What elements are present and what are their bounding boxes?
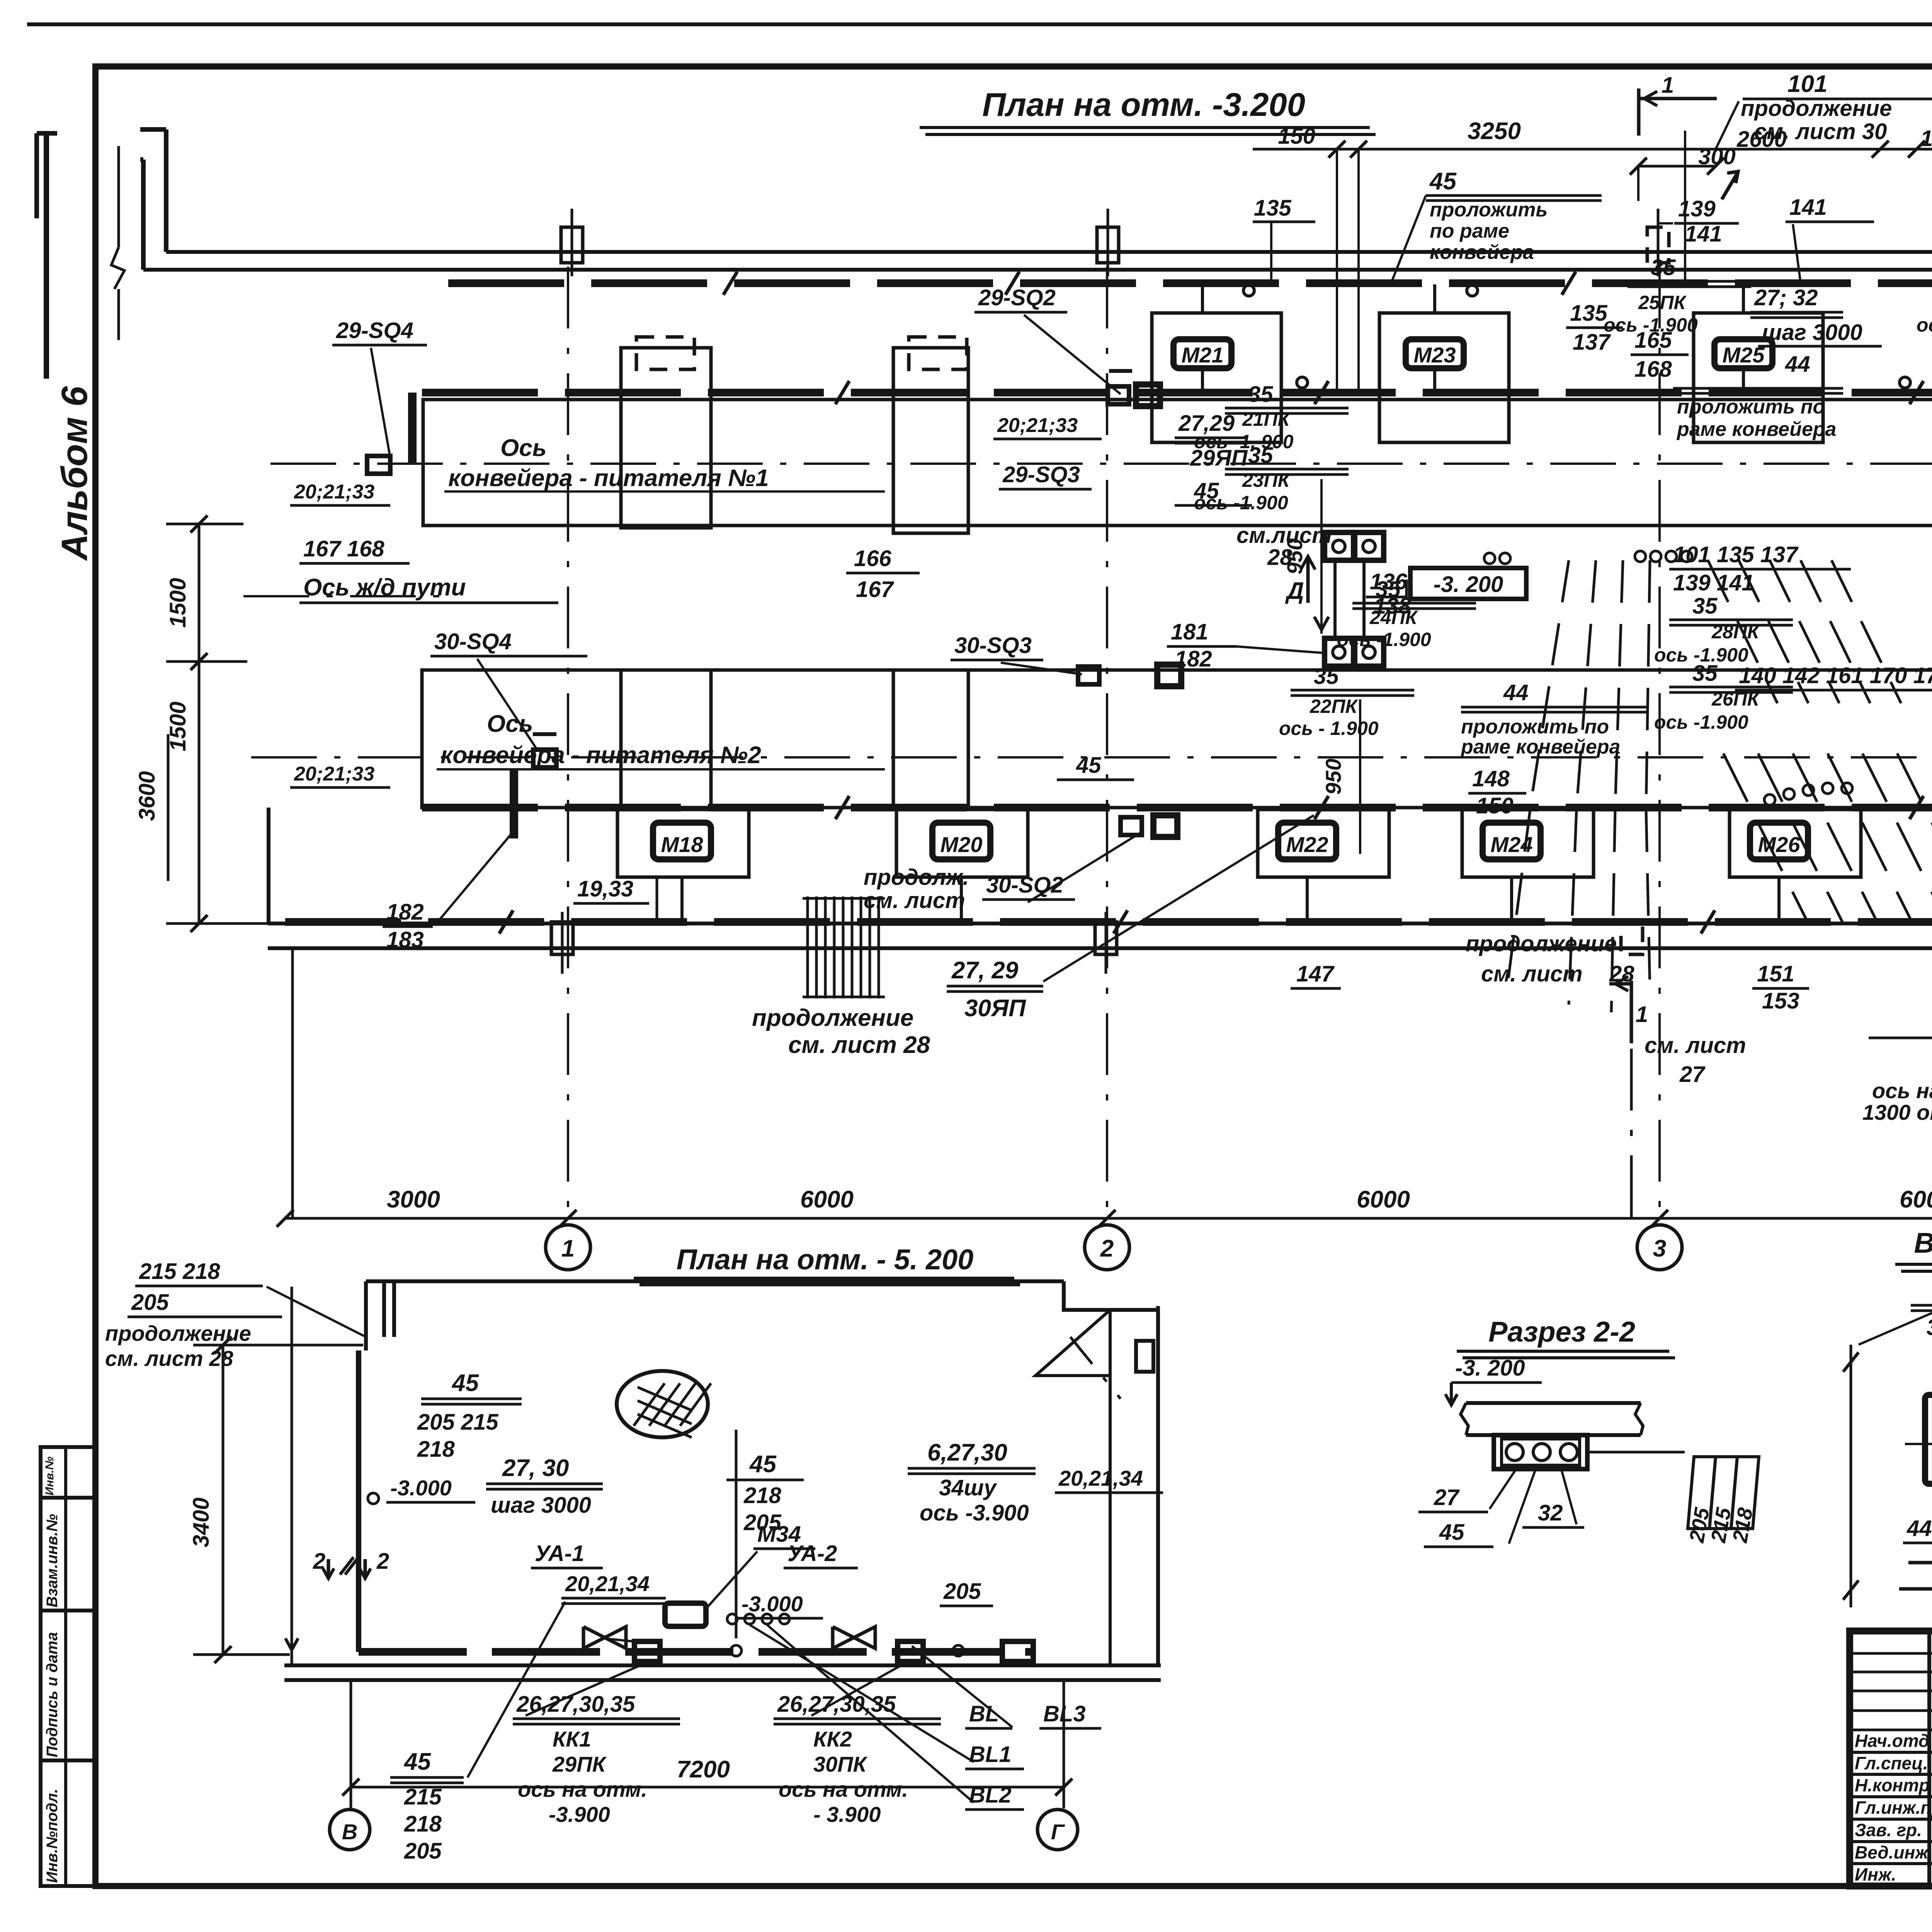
conveyor 1 axis [270, 463, 1932, 465]
motor housing М25 [1694, 313, 1823, 442]
valves [583, 1627, 626, 1648]
motor М25 [1714, 339, 1772, 368]
svg-text:29-SQ4: 29-SQ4 [336, 318, 413, 343]
svg-text:101: 101 [1787, 71, 1827, 97]
svg-text:-3.000: -3.000 [742, 1592, 803, 1616]
svg-text:27, 29: 27, 29 [951, 957, 1019, 984]
floor lines [1908, 1561, 1932, 1565]
section mark 1 top [1637, 88, 1641, 136]
svg-text:Инв.№подл.: Инв.№подл. [44, 1789, 61, 1883]
junction boxes pair [1325, 532, 1354, 560]
svg-text:3: 3 [1653, 1235, 1666, 1262]
svg-text:27: 27 [1434, 1485, 1460, 1510]
svg-text:шаг 3000: шаг 3000 [491, 1493, 591, 1518]
motor М23 [1406, 339, 1464, 368]
svg-text:продолжение: продолжение [105, 1321, 251, 1345]
svg-text:Альбом 6: Альбом 6 [54, 386, 95, 561]
svg-text:см. лист: см. лист [864, 888, 965, 913]
svg-text:150: 150 [1278, 124, 1315, 149]
svg-text:27; 32: 27; 32 [1754, 285, 1818, 310]
svg-text:Вид Б: Вид Б [1914, 1227, 1932, 1259]
slab [1466, 1401, 1641, 1405]
svg-text:-3. 200: -3. 200 [1455, 1355, 1525, 1381]
svg-text:6000: 6000 [800, 1186, 854, 1213]
svg-text:6,27,30: 6,27,30 [927, 1439, 1007, 1466]
svg-text:ось на отм.: ось на отм. [1872, 1078, 1932, 1103]
svg-text:183: 183 [386, 927, 424, 952]
svg-text:ось -1.900: ось -1.900 [1654, 711, 1748, 733]
small circles near M34 [727, 1614, 737, 1624]
svg-text:166: 166 [854, 546, 892, 571]
svg-text:- 3.900: - 3.900 [813, 1802, 881, 1827]
motor housing М22 [1258, 810, 1389, 877]
svg-text:продолж.: продолж. [864, 865, 969, 890]
svg-text:27, 30: 27, 30 [502, 1455, 569, 1481]
svg-text:153: 153 [1762, 988, 1799, 1014]
svg-text:3600: 3600 [134, 771, 160, 821]
svg-text:УА-1: УА-1 [535, 1541, 584, 1566]
svg-text:167 168: 167 168 [303, 536, 384, 561]
svg-text:КК1: КК1 [553, 1727, 591, 1751]
svg-text:ось -1.900: ось -1.900 [1604, 314, 1698, 336]
svg-text:Ось: Ось [500, 435, 547, 461]
svg-text:План на отм. -3.200: План на отм. -3.200 [982, 87, 1305, 123]
svg-text:Взам.инв.№: Взам.инв.№ [44, 1514, 61, 1607]
svg-text:168: 168 [1634, 357, 1672, 382]
svg-text:План на отм. - 5. 200: План на отм. - 5. 200 [677, 1243, 974, 1276]
motor housing М23 [1379, 313, 1509, 442]
svg-text:205 215: 205 215 [417, 1410, 498, 1435]
svg-text:30-SQ4: 30-SQ4 [434, 629, 512, 654]
svg-text:135: 135 [1254, 196, 1292, 221]
column mark south dashed [1621, 922, 1643, 954]
svg-text:20,21,34: 20,21,34 [1058, 1466, 1143, 1490]
svg-text:проложить по: проложить по [1461, 716, 1609, 738]
svg-text:Инв.№: Инв.№ [43, 1456, 56, 1495]
hatch continuation [806, 896, 809, 998]
svg-text:148: 148 [1472, 766, 1510, 791]
conveyor 1 heavy dashed cable [422, 389, 1932, 396]
south wall [268, 922, 1932, 925]
svg-text:2: 2 [376, 1549, 389, 1574]
svg-text:см. лист: см. лист [1481, 961, 1583, 986]
grid centerline 2865 [1106, 267, 1108, 1217]
motor housing М21 [1152, 313, 1281, 442]
column mark south [551, 922, 573, 954]
small circles cluster [1635, 551, 1646, 562]
svg-text:3250: 3250 [1468, 118, 1521, 145]
svg-text:ось -1.900: ось -1.900 [1194, 492, 1288, 514]
conveyor 2 axis [251, 756, 1932, 759]
svg-text:КК2: КК2 [813, 1727, 852, 1751]
svg-text:-3. 200: -3. 200 [1434, 572, 1503, 597]
svg-text:Нач.отд: Нач.отд [1855, 1731, 1929, 1751]
svg-text:45: 45 [403, 1748, 431, 1775]
dim lines view B [1850, 1345, 1852, 1607]
svg-text:1: 1 [1662, 73, 1674, 98]
svg-text:-3.000: -3.000 [390, 1476, 452, 1500]
svg-text:141: 141 [1789, 195, 1827, 220]
svg-text:20,21,34: 20,21,34 [565, 1571, 650, 1596]
diag hatch top-right corner lower plan [1036, 1310, 1110, 1376]
svg-text:Гл.спец.: Гл.спец. [1855, 1753, 1928, 1773]
left wall lower plan [356, 1350, 361, 1652]
axis line [1905, 1443, 1932, 1445]
svg-text:45: 45 [749, 1451, 777, 1478]
svg-text:Инж.: Инж. [1855, 1864, 1896, 1884]
svg-text:181: 181 [1171, 619, 1208, 645]
svg-text:раме конвейера: раме конвейера [1460, 736, 1620, 758]
svg-text:950: 950 [1321, 759, 1345, 794]
svg-text:шаг 3000: шаг 3000 [1762, 320, 1862, 345]
svg-text:Вед.инж: Вед.инж [1855, 1842, 1929, 1862]
svg-text:30ЯП: 30ЯП [964, 995, 1026, 1022]
feeder housing [621, 348, 711, 528]
feeder housing row2 [621, 670, 711, 808]
svg-text:21ПК: 21ПК [1242, 408, 1291, 430]
rail axis [243, 595, 448, 597]
svg-text:1: 1 [561, 1235, 575, 1262]
svg-text:45: 45 [1429, 168, 1457, 195]
svg-text:32: 32 [1538, 1500, 1563, 1526]
svg-text:30шу: 30шу [1927, 1315, 1932, 1340]
svg-text:135: 135 [1570, 301, 1608, 326]
svg-text:ось на отм.: ось на отм. [779, 1777, 908, 1801]
svg-text:2600: 2600 [1736, 127, 1787, 152]
svg-text:-3.900: -3.900 [549, 1802, 610, 1827]
svg-text:218: 218 [417, 1437, 455, 1462]
left dim extension with break [117, 146, 120, 247]
svg-text:проложить: проложить [1430, 199, 1548, 221]
motor housing М18 [617, 810, 749, 877]
svg-text:35: 35 [1248, 382, 1273, 407]
title block [1850, 1631, 1932, 1886]
lower heavy cable [359, 1648, 1036, 1656]
svg-text:205: 205 [131, 1290, 169, 1315]
svg-text:150: 150 [1920, 126, 1932, 151]
lower plan dim 3400 [222, 1345, 224, 1655]
svg-text:45: 45 [1439, 1520, 1464, 1545]
left dims [198, 524, 201, 923]
svg-text:1500: 1500 [165, 578, 190, 628]
motor housing М20 [896, 810, 1028, 877]
conveyor feeder 2 belt [422, 670, 1932, 808]
svg-text:44: 44 [1906, 1516, 1932, 1541]
bottom walls lower plan [284, 1663, 1161, 1667]
motor М24 [1483, 823, 1541, 859]
svg-text:205: 205 [943, 1579, 981, 1604]
svg-text:М18: М18 [661, 832, 704, 857]
svg-text:167: 167 [856, 577, 895, 602]
north cable run [448, 279, 1932, 287]
svg-text:2: 2 [1100, 1235, 1114, 1262]
column mark south [1095, 922, 1117, 954]
main dimension line [285, 1217, 1932, 1220]
motor М21 [1173, 339, 1231, 368]
svg-text:27: 27 [1679, 1062, 1706, 1087]
svg-text:Разрез 2-2: Разрез 2-2 [1488, 1316, 1635, 1348]
hatch blob lower plan [617, 1371, 708, 1437]
30-SQ3 devices [1078, 667, 1099, 684]
svg-text:6000: 6000 [1900, 1186, 1932, 1213]
svg-text:23ПК: 23ПК [1242, 469, 1291, 491]
svg-text:ось - 1.900: ось - 1.900 [1279, 718, 1379, 739]
svg-text:147: 147 [1296, 961, 1335, 986]
svg-text:218: 218 [743, 1483, 782, 1508]
feeder housing [893, 348, 968, 533]
svg-text:141: 141 [1685, 221, 1722, 247]
svg-text:продолжение: продолжение [752, 1005, 913, 1031]
KK boxes on cable [634, 1641, 660, 1662]
north wall [166, 250, 1932, 254]
svg-text:В: В [342, 1820, 357, 1844]
svg-text:45: 45 [451, 1370, 479, 1396]
svg-text:20;21;33: 20;21;33 [294, 763, 374, 785]
svg-text:М23: М23 [1414, 343, 1456, 367]
svg-text:Ось ж/д пути: Ось ж/д пути [303, 574, 466, 601]
left margin wall stub [44, 133, 49, 379]
svg-text:35: 35 [1248, 443, 1273, 468]
svg-text:ось -1. 900: ось -1. 900 [1194, 431, 1294, 452]
svg-text:BL1: BL1 [969, 1742, 1012, 1767]
svg-text:150: 150 [1476, 793, 1514, 818]
svg-text:44: 44 [1785, 352, 1810, 377]
leaders lower plan [468, 1602, 565, 1777]
svg-text:29ПК: 29ПК [552, 1752, 607, 1776]
motor housing М24 [1462, 810, 1594, 877]
svg-text:3000: 3000 [387, 1186, 440, 1213]
svg-text:см. лист 28: см. лист 28 [788, 1032, 930, 1058]
svg-text:ось -1.900: ось -1.900 [1917, 314, 1932, 336]
svg-text:20;21;33: 20;21;33 [997, 414, 1078, 437]
svg-text:ось -3.900: ось -3.900 [920, 1500, 1029, 1526]
svg-text:конвейера: конвейера [1430, 241, 1534, 264]
svg-text:3400: 3400 [189, 1497, 214, 1547]
svg-text:28: 28 [1609, 961, 1634, 986]
svg-text:205: 205 [404, 1838, 442, 1864]
svg-text:по раме: по раме [1430, 220, 1509, 242]
svg-text:136: 136 [1370, 569, 1408, 594]
svg-text:УА-2: УА-2 [787, 1541, 837, 1566]
svg-text:35: 35 [1692, 661, 1718, 686]
svg-text:215 218: 215 218 [139, 1259, 220, 1284]
chute dashed funnel [1530, 560, 1569, 808]
svg-text:см.лист: см.лист [1236, 523, 1332, 548]
conveyor feeder 1 belt [423, 400, 1932, 526]
lower cable run [285, 918, 1932, 926]
svg-text:19,33: 19,33 [577, 876, 633, 901]
cable tray with rollers [1494, 1435, 1587, 1469]
svg-text:7200: 7200 [677, 1756, 730, 1783]
svg-text:45: 45 [1076, 753, 1101, 778]
svg-text:1: 1 [1636, 1002, 1648, 1027]
svg-text:28ПК: 28ПК [1711, 621, 1760, 643]
grid centerline 4295 [1658, 267, 1661, 1217]
svg-text:конвейера - питателя №2: конвейера - питателя №2 [440, 742, 761, 769]
svg-text:35: 35 [1692, 594, 1718, 619]
svg-text:25ПК: 25ПК [1638, 292, 1687, 313]
7200 dim lower [351, 1786, 1064, 1789]
conveyor2 start bar [510, 769, 518, 838]
svg-text:35: 35 [1651, 255, 1676, 280]
svg-text:30-SQ2: 30-SQ2 [986, 872, 1063, 898]
grid centerline 1470 [567, 267, 569, 1217]
205/215/218 slanted boxes [1688, 1457, 1716, 1529]
conveyor 2 heavy dashed cable [422, 804, 1932, 811]
column mark x=2867 [1097, 227, 1119, 263]
svg-text:44: 44 [1503, 680, 1529, 705]
sheet outer border top [27, 22, 1932, 26]
svg-text:М21: М21 [1182, 343, 1224, 367]
switch symbols left [367, 456, 390, 474]
svg-text:218: 218 [404, 1811, 442, 1837]
lower plan walls [366, 1279, 1064, 1283]
svg-text:34шу: 34шу [939, 1475, 997, 1500]
column mark x=1480 [561, 227, 583, 263]
motor М20 [932, 823, 990, 859]
svg-text:28: 28 [1267, 545, 1293, 570]
svg-text:продолжение: продолжение [1741, 96, 1892, 121]
svg-text:Гл.инж.пр.: Гл.инж.пр. [1855, 1798, 1932, 1818]
svg-text:см. лист: см. лист [1645, 1033, 1746, 1058]
svg-text:151: 151 [1757, 961, 1794, 986]
-3.200 box [1410, 568, 1526, 599]
svg-text:конвейера - питателя №1: конвейера - питателя №1 [448, 465, 769, 492]
svg-text:139: 139 [1678, 196, 1716, 221]
svg-text:ось на отм.: ось на отм. [518, 1777, 647, 1801]
svg-text:М22: М22 [1286, 832, 1328, 857]
svg-text:Д: Д [1285, 578, 1304, 604]
svg-text:1300 от пола: 1300 от пола [1862, 1100, 1932, 1124]
svg-text:20;21;33: 20;21;33 [294, 481, 374, 503]
column mark x=4291 dashed [1647, 227, 1669, 263]
svg-text:Зав. гр.: Зав. гр. [1855, 1820, 1922, 1840]
svg-text:138: 138 [1374, 594, 1412, 619]
motor М26 [1750, 823, 1808, 859]
motor М22 [1278, 823, 1336, 859]
svg-text:29-SQ2: 29-SQ2 [978, 285, 1056, 310]
conveyor1 start bar [408, 393, 417, 464]
section mark 1 bottom [1630, 981, 1633, 1043]
svg-text:30ПК: 30ПК [813, 1752, 868, 1776]
svg-text:30-SQ3: 30-SQ3 [954, 633, 1032, 658]
hatch diagonals right of grid3 [1723, 753, 1808, 923]
svg-text:проложить по: проложить по [1677, 396, 1825, 418]
svg-text:Г: Г [1051, 1820, 1065, 1844]
M34 device [665, 1603, 706, 1626]
svg-text:раме конвейера: раме конвейера [1676, 418, 1836, 440]
svg-text:29-SQ3: 29-SQ3 [1002, 462, 1080, 487]
svg-text:Н.контр: Н.контр [1855, 1775, 1930, 1795]
svg-text:6000: 6000 [1357, 1186, 1410, 1213]
feeder housing row2 [893, 670, 968, 808]
motor housing М26 [1730, 810, 1861, 877]
svg-text:М20: М20 [940, 832, 983, 857]
svg-text:см. лист 28: см. лист 28 [105, 1346, 233, 1371]
svg-text:182: 182 [386, 900, 424, 925]
leaders [1859, 1313, 1932, 1345]
svg-text:Подпись и дата: Подпись и дата [44, 1632, 61, 1757]
device cluster conveyor1 [1108, 386, 1129, 404]
left stamp boxes [41, 1447, 95, 1498]
circles V G lower [330, 1810, 370, 1850]
svg-text:22ПК: 22ПК [1310, 696, 1359, 717]
svg-text:182: 182 [1175, 646, 1212, 672]
grid circles [546, 1225, 590, 1270]
motor М18 [653, 823, 711, 859]
view B cabinet [1925, 1395, 1932, 1484]
svg-text:продолжение: продолжение [1466, 931, 1617, 956]
